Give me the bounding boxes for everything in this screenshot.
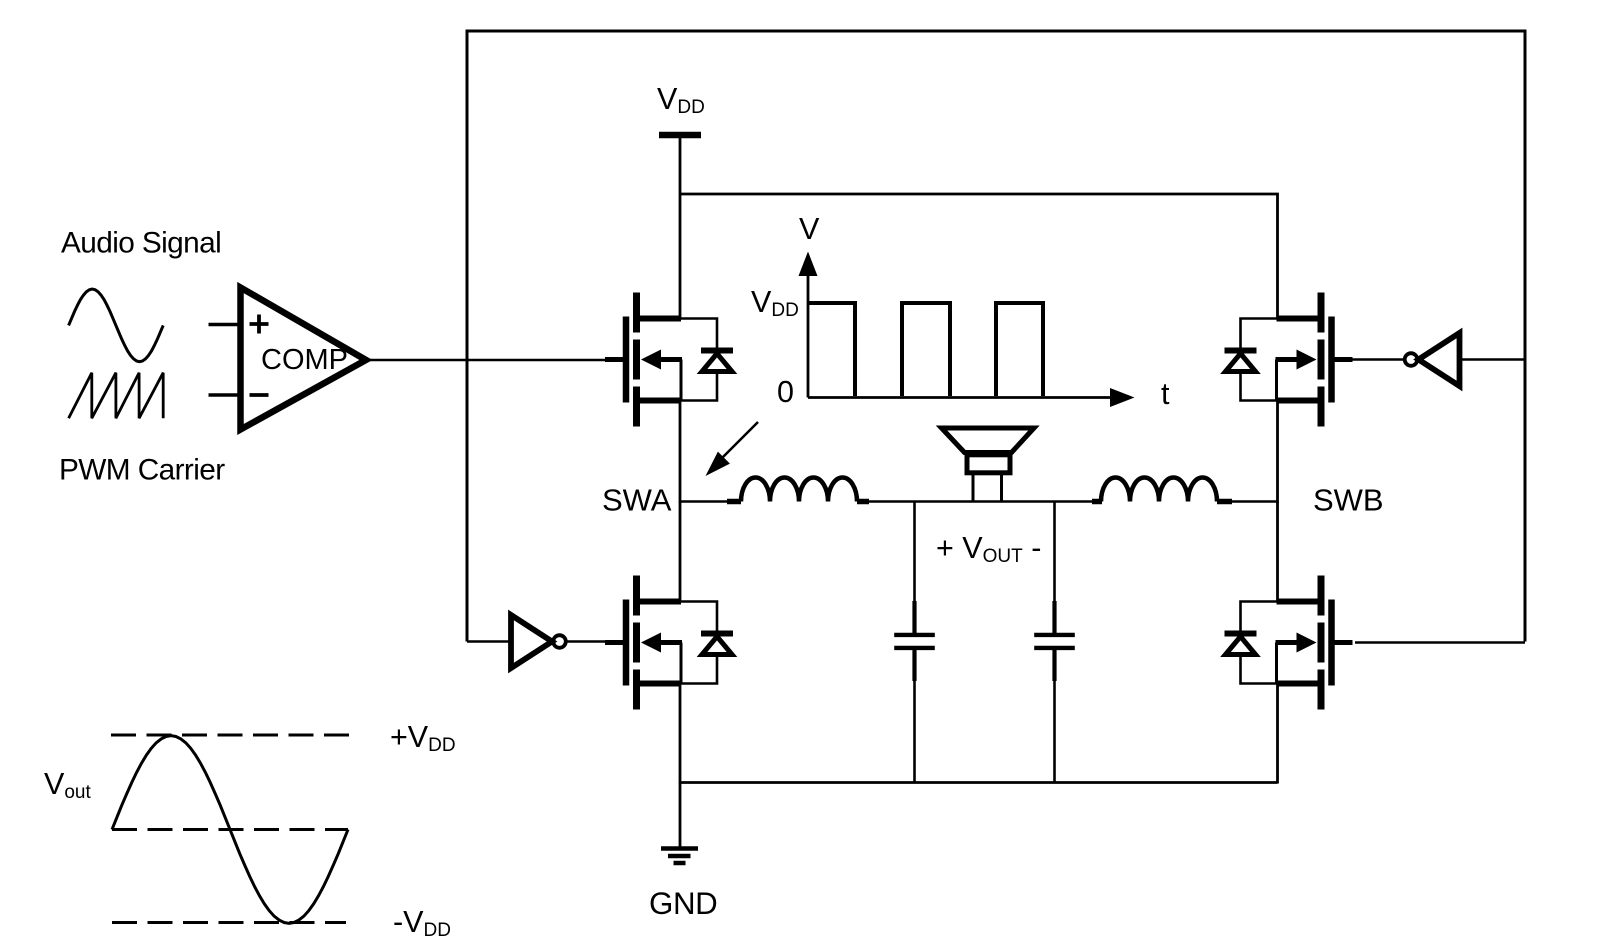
dashed +VDD level xyxy=(111,734,352,737)
wire M3 source down xyxy=(679,683,682,784)
diode D4 (Q4 body diode) xyxy=(1225,602,1277,684)
transistor Q2 (high side B) xyxy=(1276,293,1353,427)
wire to ground xyxy=(679,783,682,848)
VDD supply bar xyxy=(659,132,701,139)
wire right rail to M4 gate xyxy=(1355,641,1525,644)
Vout sine waveform xyxy=(112,736,348,924)
dashed -VDD level xyxy=(112,921,346,924)
svg-text:COMP: COMP xyxy=(261,344,348,376)
svg-text:0: 0 xyxy=(777,375,794,409)
svg-text:PWM Carrier: PWM Carrier xyxy=(59,454,225,487)
diode D1 (Q1 body diode) xyxy=(681,319,733,401)
op-amp comparator COMP xyxy=(241,288,367,430)
outer feedback box wires xyxy=(467,31,1525,642)
wire M2 gate to INV2 bubble xyxy=(1353,358,1404,361)
VDD wire down xyxy=(679,138,682,319)
comparator output wire xyxy=(366,359,606,362)
transistor Q4 (low side B) xyxy=(1276,576,1353,710)
wire SWA to L1 xyxy=(680,500,728,503)
comparator input stub + xyxy=(209,323,241,327)
inductor L1 leads xyxy=(727,499,741,505)
dashed zero level xyxy=(112,828,348,831)
top rail wire xyxy=(680,194,1278,319)
wire M2 source to SWB xyxy=(1276,400,1279,503)
wire M4 source down xyxy=(1276,683,1279,784)
arrow pointing to SWA node xyxy=(719,422,758,461)
speaker xyxy=(942,428,1035,502)
bottom rail wire xyxy=(680,781,1278,784)
wire L1 to L2 under speaker xyxy=(868,500,1092,503)
inverter INV1 to M3 gate xyxy=(511,615,566,668)
wire INV2 input to right rail xyxy=(1459,358,1525,361)
svg-text:Audio Signal: Audio Signal xyxy=(61,227,221,260)
PWM carrier sawtooth xyxy=(69,373,164,419)
comparator input stub - xyxy=(209,393,241,397)
wire M1 source to SWA xyxy=(679,400,682,503)
wire L2 to SWB xyxy=(1231,500,1278,503)
plus sign xyxy=(250,315,269,334)
diode D2 (Q2 body diode) xyxy=(1225,319,1277,401)
wire left rail to INV1 xyxy=(467,640,511,643)
PWM square waveform xyxy=(808,303,1043,396)
svg-text:V: V xyxy=(799,212,820,246)
inductor L2 xyxy=(1101,478,1217,502)
inverter INV2 to M2 gate xyxy=(1405,333,1460,386)
inductor L1 xyxy=(741,478,857,502)
transistor Q3 (low side A) xyxy=(605,576,682,710)
ground xyxy=(661,849,698,864)
audio sine waveform xyxy=(69,289,164,362)
svg-text:t: t xyxy=(1161,377,1170,411)
inductor L2 leads xyxy=(1092,499,1102,505)
capacitor C2 xyxy=(1034,502,1075,783)
svg-text:SWB: SWB xyxy=(1313,483,1384,518)
capacitor C1 xyxy=(894,502,935,783)
transistor Q1 (high side A) xyxy=(605,293,682,427)
wire INV1 bubble to M3 gate xyxy=(566,640,606,643)
PWM plot V axis xyxy=(807,268,810,398)
minus sign xyxy=(250,393,269,397)
diode D3 (Q3 body diode) xyxy=(681,602,733,684)
wire SWA down to M3 xyxy=(679,502,682,603)
wire SWB down to M4 xyxy=(1276,502,1279,603)
svg-text:SWA: SWA xyxy=(602,483,672,518)
PWM plot t axis xyxy=(808,396,1114,399)
svg-text:GND: GND xyxy=(649,886,717,921)
